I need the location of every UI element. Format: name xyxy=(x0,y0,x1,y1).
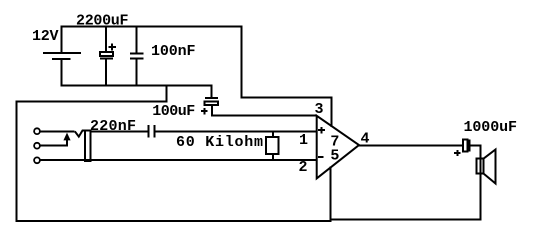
svg-text:100nF: 100nF xyxy=(151,43,196,60)
potentiometer wiper stem xyxy=(66,139,68,147)
svg-text:220nF: 220nF xyxy=(90,118,136,135)
potentiometer VR1 element rect xyxy=(85,130,91,160)
wire 2200uF bottom lead xyxy=(105,59,107,87)
svg-text:4: 4 xyxy=(361,131,370,148)
wire top rail +12V xyxy=(61,26,243,28)
plus sign of C1 2200uF xyxy=(108,46,116,48)
wire 2200uF top lead xyxy=(105,26,107,53)
plus sign of C5 1000uF xyxy=(454,152,461,154)
wire op-amp output pin 4 xyxy=(359,144,463,146)
resistor R1 60 Kilohm body xyxy=(266,137,279,154)
svg-text:60 Kilohm: 60 Kilohm xyxy=(176,134,263,151)
wire ground bus under battery xyxy=(61,85,212,87)
wire +12V right feed down xyxy=(241,26,243,99)
input terminal circle 2 xyxy=(34,143,40,149)
svg-text:1000uF: 1000uF xyxy=(464,119,518,136)
capacitor C4 220nF plate right xyxy=(154,125,156,138)
wire pin 3 drop into op-amp xyxy=(331,98,333,127)
plus sign of C3 100uF xyxy=(201,110,208,112)
input terminal circle 3 xyxy=(34,157,40,163)
potentiometer wiper arrowhead xyxy=(63,133,70,141)
svg-text:12V: 12V xyxy=(32,28,59,45)
svg-text:3: 3 xyxy=(315,101,324,118)
wire 100nF bottom lead xyxy=(136,58,138,86)
wire +12V feed horizontal to pin 3 xyxy=(242,97,333,99)
capacitor C3 100uF plus plate (rect) xyxy=(205,101,219,105)
svg-text:5: 5 xyxy=(330,148,339,165)
wire op-amp pin 5 ground lead xyxy=(330,167,332,222)
wire battery top lead xyxy=(61,26,63,54)
wire 1000uF to speaker corner xyxy=(469,144,481,146)
capacitor C4 220nF plate left xyxy=(148,125,150,138)
wire circle3 to op-amp minus input xyxy=(40,159,318,161)
wire speaker feed down to bus xyxy=(479,144,481,220)
svg-text:1: 1 xyxy=(299,132,308,149)
capacitor C1 2200uF minus plate xyxy=(100,58,113,60)
wire box bottom edge xyxy=(16,220,332,222)
capacitor C5 1000uF plus plate (rect) xyxy=(463,139,468,151)
wire 100uF to op-amp corner xyxy=(211,115,317,117)
wire circle2 to pot wiper xyxy=(40,145,69,147)
op-amp U1 triangle xyxy=(317,116,359,179)
resistor R1 bottom stub xyxy=(272,154,274,161)
capacitor C2 100nF plate bottom xyxy=(130,57,143,59)
wire box left edge xyxy=(16,100,18,222)
wire input signal top (circle1 to V) xyxy=(40,130,75,132)
battery B1 short plate xyxy=(52,58,71,60)
op-amp plus input sign xyxy=(318,129,325,131)
capacitor C5 1000uF minus plate xyxy=(468,139,470,151)
battery B1 12V long plate xyxy=(43,52,81,54)
wire battery bottom lead xyxy=(61,59,63,86)
capacitor C1 2200uF plus plate (rect) xyxy=(100,52,113,56)
svg-text:100uF: 100uF xyxy=(152,103,195,120)
speaker LS1 horn xyxy=(484,150,496,184)
speaker LS1 magnet rect xyxy=(477,159,484,174)
wire stub bus to box top xyxy=(166,85,168,103)
svg-text:2: 2 xyxy=(299,159,308,176)
op-amp minus input sign xyxy=(318,156,324,158)
wire 100uF bottom lead xyxy=(211,105,213,116)
svg-text:2200uF: 2200uF xyxy=(76,13,129,30)
pot V crimp symbol xyxy=(75,131,86,137)
wire 100nF top lead xyxy=(136,26,138,54)
wire ground bus to speaker xyxy=(330,219,481,221)
capacitor C3 100uF minus plate xyxy=(205,97,218,99)
input terminal circle 1 xyxy=(34,128,40,134)
wire signal pot to 220nF xyxy=(91,130,148,132)
wire 100uF top lead xyxy=(211,85,213,98)
resistor R1 60 Kilohm top stub xyxy=(272,131,274,138)
wire 220nF to op-amp plus input xyxy=(155,130,317,132)
capacitor C2 100nF plate top xyxy=(130,53,143,55)
wire box top edge xyxy=(16,100,168,102)
